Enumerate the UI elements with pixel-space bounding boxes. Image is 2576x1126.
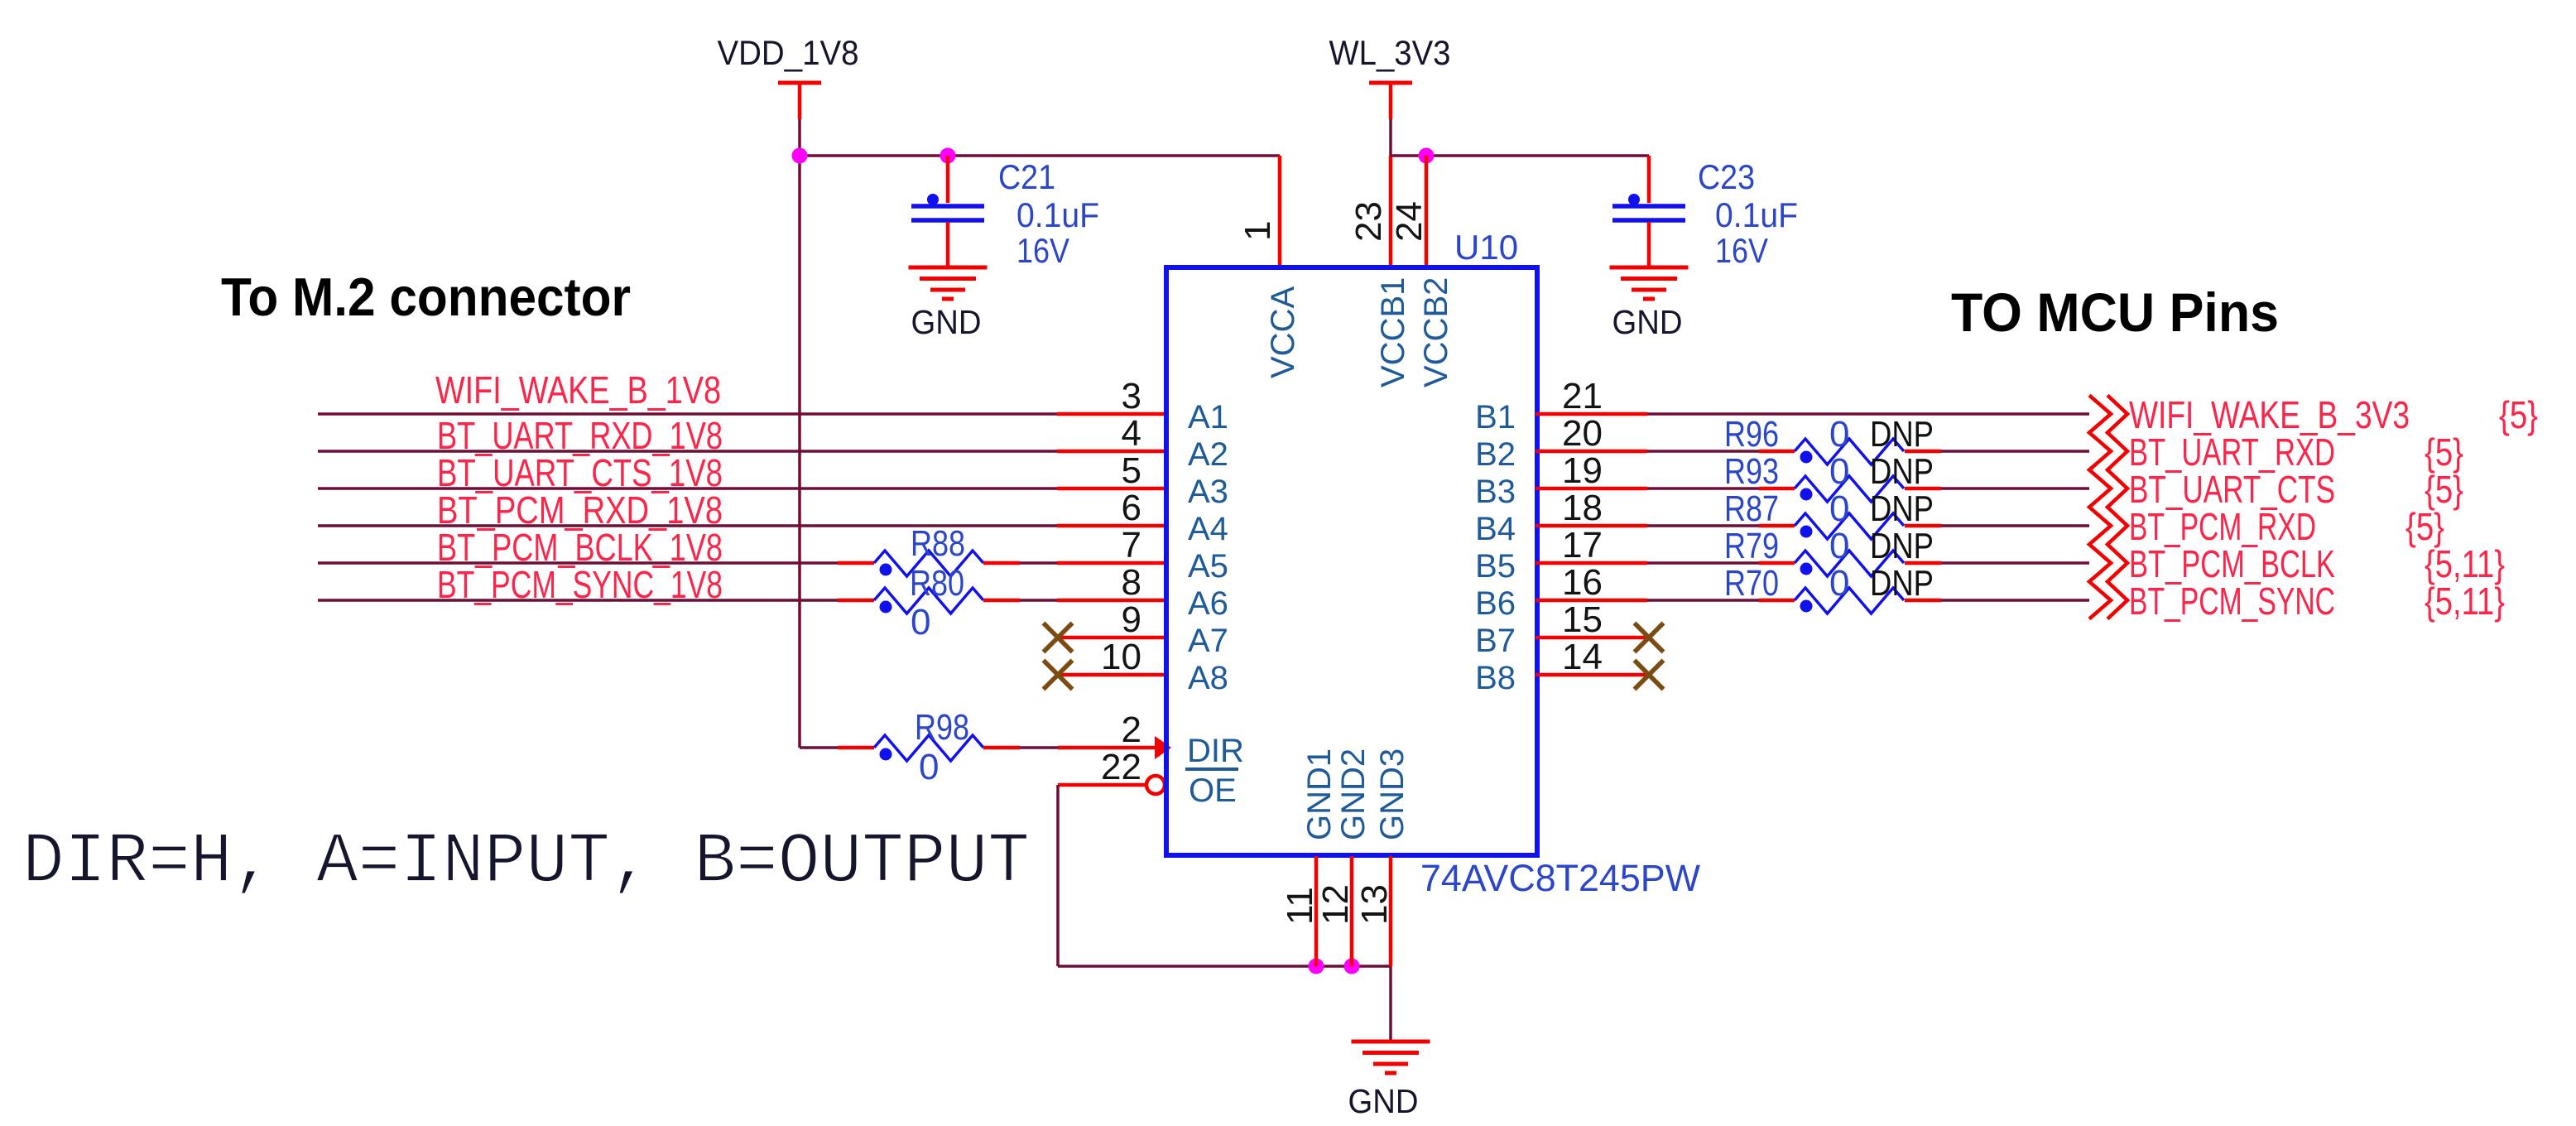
svg-text:{5}: {5} <box>2499 393 2538 436</box>
svg-text:16: 16 <box>1562 562 1603 603</box>
svg-text:OE: OE <box>1189 772 1237 809</box>
svg-text:DNP: DNP <box>1870 563 1934 604</box>
svg-text:DIR: DIR <box>1187 733 1244 769</box>
svg-text:0.1uF: 0.1uF <box>1715 195 1798 234</box>
svg-text:A3: A3 <box>1188 474 1228 510</box>
svg-text:VCCB2: VCCB2 <box>1418 277 1454 387</box>
svg-text:24: 24 <box>1389 201 1430 242</box>
svg-text:0: 0 <box>1829 488 1849 529</box>
svg-text:C23: C23 <box>1698 157 1755 196</box>
svg-text:14: 14 <box>1562 637 1603 677</box>
svg-text:19: 19 <box>1562 450 1603 491</box>
svg-text:1: 1 <box>1238 221 1278 241</box>
svg-text:13: 13 <box>1354 884 1395 925</box>
svg-text:B8: B8 <box>1475 660 1516 696</box>
svg-text:A8: A8 <box>1188 660 1228 696</box>
svg-text:GND1: GND1 <box>1301 748 1338 840</box>
svg-text:4: 4 <box>1122 413 1141 454</box>
svg-text:22: 22 <box>1101 747 1141 787</box>
svg-text:B3: B3 <box>1475 474 1516 510</box>
svg-text:DIR=H, A=INPUT, B=OUTPUT: DIR=H, A=INPUT, B=OUTPUT <box>22 821 1030 902</box>
svg-text:2: 2 <box>1122 710 1141 750</box>
svg-text:GND: GND <box>911 303 982 341</box>
svg-text:R88: R88 <box>911 523 965 564</box>
svg-text:GND: GND <box>1612 303 1683 341</box>
svg-text:18: 18 <box>1562 488 1603 528</box>
svg-text:R96: R96 <box>1724 414 1779 455</box>
svg-text:C21: C21 <box>998 157 1055 196</box>
svg-text:BT_PCM_SYNC_1V8: BT_PCM_SYNC_1V8 <box>437 563 723 606</box>
svg-text:BT_PCM_SYNC: BT_PCM_SYNC <box>2129 580 2335 623</box>
svg-text:15: 15 <box>1562 599 1603 640</box>
svg-text:11: 11 <box>1280 887 1320 925</box>
svg-text:To M.2 connector: To M.2 connector <box>221 267 631 327</box>
svg-text:GND: GND <box>1348 1082 1419 1120</box>
svg-text:21: 21 <box>1562 376 1603 416</box>
svg-text:B4: B4 <box>1475 511 1516 547</box>
svg-text:R79: R79 <box>1724 526 1779 566</box>
svg-text:8: 8 <box>1122 562 1141 603</box>
svg-text:R87: R87 <box>1724 488 1779 529</box>
svg-text:0.1uF: 0.1uF <box>1016 195 1099 234</box>
svg-text:A2: A2 <box>1188 436 1228 473</box>
svg-text:A1: A1 <box>1188 399 1228 435</box>
svg-text:R70: R70 <box>1724 563 1779 604</box>
svg-text:{5,11}: {5,11} <box>2425 580 2505 623</box>
svg-text:DNP: DNP <box>1870 488 1934 529</box>
svg-text:9: 9 <box>1122 599 1141 640</box>
svg-text:A4: A4 <box>1188 511 1228 547</box>
svg-text:DNP: DNP <box>1870 451 1934 492</box>
svg-text:0: 0 <box>1829 563 1849 604</box>
svg-text:0: 0 <box>1829 526 1849 566</box>
svg-text:GND3: GND3 <box>1374 748 1411 840</box>
svg-text:WL_3V3: WL_3V3 <box>1329 33 1451 72</box>
svg-text:0: 0 <box>911 602 930 642</box>
svg-text:VCCA: VCCA <box>1265 286 1301 378</box>
svg-text:DNP: DNP <box>1870 526 1934 566</box>
svg-text:B1: B1 <box>1475 399 1516 435</box>
svg-text:16V: 16V <box>1715 231 1768 270</box>
svg-text:A6: A6 <box>1188 585 1228 622</box>
svg-text:DNP: DNP <box>1870 414 1934 455</box>
svg-text:3: 3 <box>1122 376 1141 416</box>
svg-text:GND2: GND2 <box>1335 748 1372 840</box>
svg-text:TO MCU Pins: TO MCU Pins <box>1951 281 2279 343</box>
svg-text:B5: B5 <box>1475 548 1516 585</box>
svg-text:B6: B6 <box>1475 585 1516 622</box>
svg-text:5: 5 <box>1122 450 1141 491</box>
svg-text:20: 20 <box>1562 413 1603 454</box>
svg-text:16V: 16V <box>1016 231 1069 270</box>
svg-text:R80: R80 <box>910 563 964 604</box>
svg-text:U10: U10 <box>1454 228 1518 267</box>
svg-text:7: 7 <box>1122 525 1141 565</box>
svg-text:12: 12 <box>1315 884 1356 925</box>
svg-text:0: 0 <box>1829 414 1849 455</box>
svg-text:A7: A7 <box>1188 623 1228 659</box>
svg-text:R98: R98 <box>915 707 969 748</box>
svg-text:B7: B7 <box>1475 623 1516 659</box>
svg-text:10: 10 <box>1101 637 1141 677</box>
svg-text:23: 23 <box>1348 201 1389 242</box>
svg-text:B2: B2 <box>1475 436 1516 473</box>
svg-text:6: 6 <box>1122 488 1141 528</box>
svg-text:VCCB1: VCCB1 <box>1375 277 1411 387</box>
svg-text:17: 17 <box>1562 525 1603 565</box>
svg-text:0: 0 <box>1829 451 1849 492</box>
svg-text:0: 0 <box>919 747 939 787</box>
svg-text:R93: R93 <box>1724 451 1779 492</box>
svg-text:74AVC8T245PW: 74AVC8T245PW <box>1420 857 1701 899</box>
svg-text:WIFI_WAKE_B_1V8: WIFI_WAKE_B_1V8 <box>435 368 721 411</box>
svg-text:VDD_1V8: VDD_1V8 <box>718 33 859 72</box>
svg-text:A5: A5 <box>1188 548 1228 585</box>
